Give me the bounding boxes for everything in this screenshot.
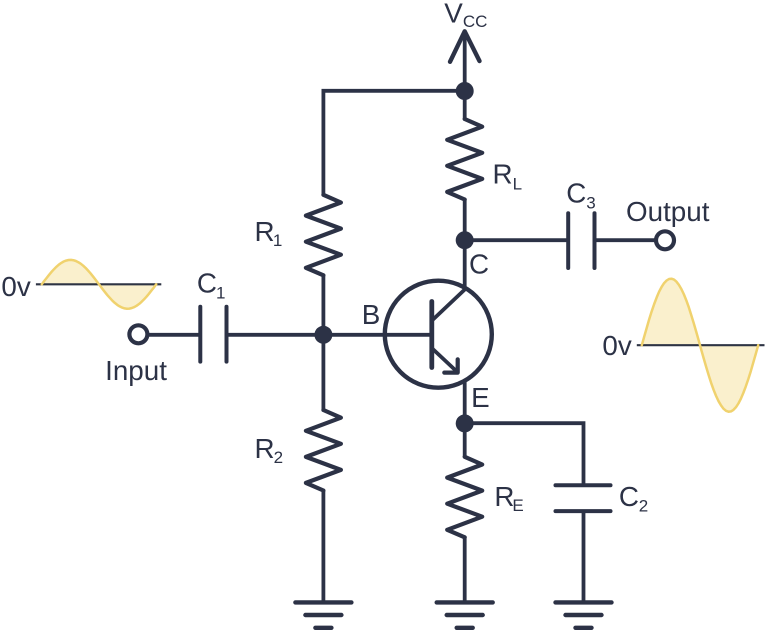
svg-text:V: V — [444, 0, 463, 29]
svg-text:1: 1 — [216, 283, 225, 302]
svg-text:0v: 0v — [602, 330, 631, 361]
svg-text:0v: 0v — [1, 271, 30, 302]
svg-text:CC: CC — [463, 12, 488, 31]
svg-text:C: C — [197, 267, 217, 298]
svg-text:3: 3 — [586, 193, 595, 212]
svg-text:R: R — [255, 216, 275, 247]
svg-text:B: B — [362, 299, 381, 330]
svg-text:R: R — [255, 433, 275, 464]
svg-text:R: R — [493, 159, 513, 190]
svg-text:Input: Input — [105, 355, 167, 386]
svg-text:2: 2 — [274, 448, 283, 467]
svg-text:Output: Output — [626, 196, 710, 227]
svg-text:2: 2 — [639, 496, 648, 515]
svg-text:E: E — [471, 382, 490, 413]
svg-text:E: E — [512, 496, 523, 515]
svg-text:C: C — [619, 481, 639, 512]
svg-text:1: 1 — [273, 231, 282, 250]
svg-text:C: C — [566, 177, 586, 208]
svg-text:C: C — [469, 248, 489, 279]
svg-text:L: L — [513, 175, 522, 194]
